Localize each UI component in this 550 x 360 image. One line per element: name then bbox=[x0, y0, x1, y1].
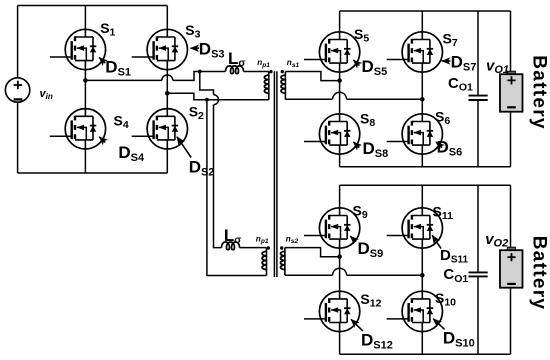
svg-text:Battery: Battery bbox=[529, 236, 550, 311]
svg-text:Battery: Battery bbox=[529, 55, 550, 130]
